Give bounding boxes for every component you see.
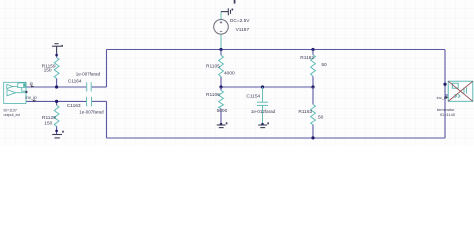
pin dot R1106 ground: [220, 123, 223, 126]
wire net inv_ip: row a (box pin to C1163): [26, 100, 86, 102]
junction inv_ip/R1129: [55, 100, 58, 103]
svg-text:ip: ip: [30, 81, 34, 86]
svg-text:inv_ip: inv_ip: [25, 95, 37, 100]
wire net ip: row a (box pin to C1164): [26, 86, 86, 88]
svg-text:V1187: V1187: [236, 27, 250, 33]
capacitor C1163: [87, 97, 92, 106]
capacitor C1154: [257, 87, 268, 124]
ground below R1106: [217, 125, 226, 128]
minus mark: [220, 30, 222, 32]
svg-text:R1163: R1163: [298, 109, 312, 115]
svg-text:R1105: R1105: [206, 64, 220, 70]
node arrow inv_in: [445, 96, 449, 99]
svg-text:R1106: R1106: [206, 92, 220, 98]
svg-text:ID=1140: ID=1140: [440, 112, 456, 117]
svg-text:output_ecl: output_ecl: [4, 113, 21, 117]
pin nub output_ecl: [25, 91, 27, 93]
ground flipped above R1159: [52, 44, 61, 54]
ic U1137 output_ecl: [4, 82, 26, 103]
ground tiny tag: [62, 131, 64, 133]
pin dot R1129 ground: [55, 130, 58, 133]
svg-text:50: 50: [321, 62, 327, 68]
svg-text:4000: 4000: [224, 70, 235, 76]
svg-text:R1129: R1129: [42, 115, 56, 121]
resistor R1106: [220, 87, 222, 124]
wire terminator pin stub: [445, 94, 448, 96]
plus mark: [220, 21, 223, 24]
junction bottom rail / R1163: [311, 136, 314, 139]
svg-text:150: 150: [44, 68, 52, 74]
svg-text:1e-012farad: 1e-012farad: [251, 109, 276, 114]
resistor R1129: [56, 101, 58, 134]
ground tiny tag: [267, 122, 269, 124]
wire top rail: [107, 49, 446, 51]
node arrow inv_ip: [33, 100, 37, 102]
resistor R1105: [220, 50, 222, 88]
junction terminator wire: [443, 83, 446, 86]
resistor R1163: [312, 87, 314, 138]
svg-text:5600: 5600: [217, 108, 228, 114]
junction middle rail / C1154: [261, 85, 264, 88]
background canvas: [0, 0, 474, 146]
svg-text:50: 50: [318, 115, 324, 121]
junction middle rail / R1162 / R1163: [311, 85, 314, 88]
node arrow ip: [31, 85, 35, 87]
wire riser up to top rail: [106, 50, 108, 88]
ground below C1154: [258, 125, 267, 128]
svg-text:ID=1137: ID=1137: [4, 108, 17, 112]
ground tiny tag: [232, 9, 234, 11]
clipped label mark top: [234, 0, 236, 4]
ground tiny tag: [226, 122, 228, 124]
svg-text:1e-007farad: 1e-007farad: [79, 109, 104, 114]
svg-text:C1164: C1164: [68, 78, 82, 84]
ground tiny tag: [61, 45, 63, 47]
junction middle rail / R1105 / R1106: [219, 85, 222, 88]
junction top rail / V1187 / R1105: [219, 48, 222, 51]
svg-text:150: 150: [44, 120, 52, 126]
pin pad output_ecl: [23, 84, 26, 87]
ground rotated at V1187 top: [221, 8, 231, 15]
wire riser down to bottom rail: [106, 101, 108, 138]
pin dot R1159 top: [55, 54, 58, 57]
dc source V1187: [220, 12, 222, 50]
svg-text:C1154: C1154: [246, 94, 260, 100]
terminator ID=1140: [448, 81, 473, 101]
wire net inv_ip: row b (C1163 to riser): [92, 100, 107, 102]
svg-text:DC=2.5V: DC=2.5V: [230, 18, 250, 24]
wire terminator vertical: [444, 50, 446, 139]
terminator X: [448, 81, 473, 101]
resistor R1159: [56, 53, 58, 87]
pin dot C1154 ground: [261, 123, 264, 126]
wire middle rail (R1105/R1106 node to R1162/R1163 node): [221, 86, 313, 88]
capacitor C1164: [87, 82, 92, 91]
junction ip/R1159: [55, 85, 58, 88]
junction top rail / R1162: [311, 48, 314, 51]
resistor R1162: [312, 50, 314, 88]
wire bottom rail: [107, 137, 446, 139]
wire net ip: row b (C1164 to riser): [92, 86, 107, 88]
svg-text:C1163: C1163: [67, 103, 81, 109]
ground below R1129: [52, 135, 62, 138]
svg-text:1e-007farad: 1e-007farad: [76, 71, 101, 76]
svg-text:R1162: R1162: [300, 55, 314, 61]
